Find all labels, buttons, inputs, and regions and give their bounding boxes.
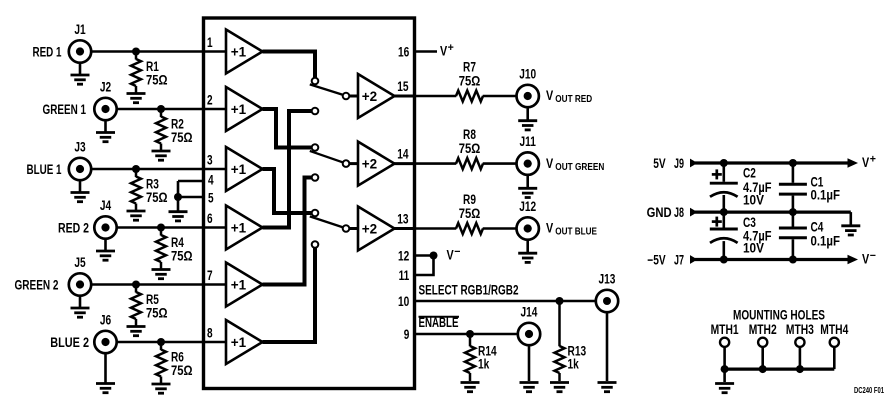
connector J11 — [517, 152, 539, 174]
wire buffer2 out to mux2 upper — [263, 109, 312, 148]
svg-text:C2: C2 — [743, 165, 756, 180]
ground R14 — [461, 383, 480, 392]
C2 polarity + — [712, 173, 722, 176]
svg-text:C4: C4 — [811, 220, 824, 235]
svg-text:V: V — [440, 43, 447, 58]
junction R14 node — [466, 330, 474, 338]
ground R5 — [127, 327, 146, 336]
svg-text:15: 15 — [397, 79, 409, 94]
svg-text:OUT BLUE: OUT BLUE — [555, 227, 597, 238]
op-amp buffer U1c +1 — [226, 147, 263, 191]
resistor R13 1k — [558, 301, 561, 346]
junction V- — [430, 252, 438, 260]
svg-text:8: 8 — [207, 326, 213, 341]
resistor R8 75Ω — [456, 158, 483, 169]
wire R8 to J11 — [483, 162, 517, 165]
svg-text:SELECT RGB1/RGB2: SELECT RGB1/RGB2 — [419, 283, 519, 298]
svg-text:MTH1: MTH1 — [711, 322, 739, 337]
wire mux2 pole to amp — [350, 162, 359, 165]
mounting hole MTH4 — [830, 338, 839, 347]
wire pin to buffer U1a — [204, 50, 227, 53]
svg-text:RED 2: RED 2 — [58, 220, 89, 235]
svg-text:MTH3: MTH3 — [786, 322, 814, 337]
svg-text:+: + — [870, 154, 876, 166]
junction R3 node — [132, 165, 140, 173]
wire pin to R7 — [415, 95, 457, 98]
svg-text:4: 4 — [208, 173, 214, 188]
svg-text:J5: J5 — [74, 255, 86, 270]
junction R13 node — [556, 297, 564, 305]
ground J10 — [518, 121, 537, 130]
ground J12 — [518, 253, 537, 262]
ground rail — [841, 226, 860, 235]
svg-text:J6: J6 — [100, 313, 112, 328]
wire -5V rail — [695, 258, 849, 261]
svg-text:3: 3 — [207, 153, 213, 168]
wire pin10 SELECT — [415, 300, 597, 303]
op-amp U2b +2 — [358, 142, 395, 186]
switch mux2 lower contact — [312, 174, 319, 181]
wire pin to buffer U1f — [204, 341, 227, 344]
svg-text:J8: J8 — [674, 205, 684, 220]
svg-text:+1: +1 — [231, 102, 247, 117]
wire BLUE 2 to pin — [117, 341, 204, 344]
ground J14 — [520, 383, 539, 392]
ground R3 — [127, 211, 146, 220]
capacitor C1 0.1uF — [792, 163, 795, 183]
svg-text:10: 10 — [398, 294, 409, 309]
svg-text:1k: 1k — [478, 357, 490, 372]
wire J13 ground stem — [606, 312, 609, 381]
ground R1 — [127, 94, 146, 103]
wire pin9 ENABLE — [415, 333, 517, 336]
wire mux3 pole to amp — [350, 227, 359, 230]
wire buffer3 out to mux3 upper — [263, 169, 312, 213]
mounting hole MTH1 — [720, 338, 729, 347]
ground J11 — [518, 188, 537, 197]
wire U2b out to pin — [395, 162, 415, 165]
switch mux2 upper contact — [312, 144, 319, 151]
ground J3 — [79, 180, 82, 192]
op-amp U2a +2 — [358, 74, 395, 118]
C3 polarity + — [712, 220, 722, 223]
svg-text:J4: J4 — [100, 198, 112, 213]
svg-text:75Ω: 75Ω — [171, 363, 193, 378]
wire MTH3 stem — [799, 347, 802, 369]
svg-text:BLUE 2: BLUE 2 — [50, 335, 89, 350]
wire U2a out to pin — [395, 95, 415, 98]
ground J1 — [79, 63, 82, 75]
svg-text:−: − — [454, 246, 460, 258]
svg-text:75Ω: 75Ω — [146, 73, 168, 88]
connector J14 — [518, 323, 540, 345]
ground R2 — [152, 151, 171, 160]
wire buffer6 out to mux3 lower — [263, 248, 316, 342]
junction C1 bottom — [789, 208, 797, 216]
wire pins 4-5 tie — [177, 181, 180, 197]
ground J10 stem — [526, 107, 529, 120]
node J9 input marker — [690, 159, 698, 168]
ground J12 stem — [526, 240, 529, 253]
svg-text:+2: +2 — [362, 157, 377, 172]
overline ENABLE — [419, 316, 460, 318]
resistor R14 1k — [469, 334, 472, 346]
svg-text:75Ω: 75Ω — [146, 190, 168, 205]
pin16 V+ stub — [415, 50, 438, 53]
junction R4 node — [157, 224, 165, 232]
junction pins4-5 — [174, 193, 182, 201]
svg-text:0.1µF: 0.1µF — [811, 187, 841, 202]
connector J3 (BLUE 1) — [69, 158, 91, 180]
ground R4 — [152, 270, 171, 279]
svg-text:75Ω: 75Ω — [171, 130, 193, 145]
wire RED 1 to pin — [91, 50, 203, 53]
op-amp buffer U1e +1 — [226, 263, 263, 307]
switch mux2 blade — [310, 151, 343, 162]
junction MTH1 — [721, 365, 729, 373]
resistor R6 75Ω — [160, 342, 163, 350]
svg-text:J10: J10 — [519, 67, 536, 82]
junction R1 node — [132, 48, 140, 56]
svg-text:DC240 F01: DC240 F01 — [854, 386, 884, 395]
node J8 input marker — [690, 208, 698, 217]
capacitor C3 4.7uF — [722, 212, 725, 228]
svg-text:OUT RED: OUT RED — [555, 94, 592, 105]
svg-text:10V: 10V — [743, 240, 764, 255]
svg-text:V: V — [546, 221, 553, 236]
op-amp U2c +2 — [358, 207, 395, 251]
wire pin to buffer U1c — [204, 168, 227, 171]
svg-text:75Ω: 75Ω — [459, 141, 481, 156]
wire pin4 stub — [178, 180, 204, 183]
svg-text:GND: GND — [647, 205, 672, 220]
svg-text:OUT GREEN: OUT GREEN — [555, 162, 604, 173]
switch mux3 upper contact — [312, 210, 319, 217]
svg-text:10V: 10V — [743, 192, 764, 207]
svg-text:0.1µF: 0.1µF — [811, 233, 841, 248]
mounting hole MTH3 — [795, 338, 804, 347]
svg-text:+1: +1 — [231, 162, 247, 177]
switch mux2 pole — [343, 160, 350, 167]
capacitor C4 0.1uF — [792, 212, 795, 226]
svg-text:1: 1 — [207, 35, 213, 50]
wire GND drop — [849, 212, 852, 224]
resistor R7 75Ω — [456, 91, 483, 102]
wire pin to buffer U1b — [204, 108, 227, 111]
resistor R1 75Ω — [135, 52, 138, 60]
wire BLUE 1 to pin — [91, 168, 203, 171]
ground pins 4-5 — [169, 212, 188, 221]
connector J4 (RED 2) — [94, 216, 116, 238]
svg-text:GREEN 1: GREEN 1 — [43, 102, 87, 117]
junction R6 node — [157, 338, 165, 346]
op-amp buffer U1b +1 — [226, 87, 263, 131]
svg-text:V: V — [862, 155, 869, 170]
svg-text:7: 7 — [207, 268, 213, 283]
svg-text:J11: J11 — [520, 134, 537, 149]
svg-text:V: V — [546, 88, 553, 103]
wire U2c out to pin — [395, 227, 415, 230]
wire buffer5 out to mux2 lower — [263, 178, 312, 285]
svg-text:V: V — [447, 247, 454, 262]
resistor R5 75Ω — [135, 285, 138, 293]
svg-text:MTH2: MTH2 — [749, 322, 777, 337]
switch mux1 upper contact — [312, 78, 319, 85]
svg-text:J7: J7 — [674, 252, 684, 267]
switch mux1 lower contact — [312, 108, 319, 115]
svg-text:RED 1: RED 1 — [33, 44, 62, 59]
pin12 V- wire — [415, 254, 434, 257]
capacitor C2 4.7uF — [722, 163, 725, 182]
switch mux1 blade — [310, 84, 343, 94]
wire pin to buffer U1e — [204, 283, 227, 286]
wire mounting ground stem — [723, 369, 726, 382]
svg-text:MTH4: MTH4 — [820, 322, 848, 337]
svg-text:GREEN 2: GREEN 2 — [15, 277, 59, 292]
wire buffer4 out to mux1 lower — [263, 111, 312, 228]
svg-text:J9: J9 — [674, 156, 684, 171]
op-amp buffer U1d +1 — [226, 206, 263, 250]
ground J4 — [104, 239, 107, 251]
svg-text:5: 5 — [208, 191, 214, 206]
svg-text:11: 11 — [399, 268, 410, 283]
wire GREEN 1 to pin — [117, 108, 204, 111]
pin11 L wire — [415, 256, 434, 276]
svg-text:R9: R9 — [463, 192, 476, 207]
svg-text:12: 12 — [398, 248, 409, 263]
junction C2 top — [720, 159, 728, 167]
junction C2 bottom — [720, 208, 728, 216]
svg-text:V: V — [862, 251, 869, 266]
svg-text:16: 16 — [398, 44, 410, 59]
wire GREEN 2 to pin — [91, 283, 203, 286]
resistor R2 75Ω — [160, 109, 163, 117]
svg-text:75Ω: 75Ω — [171, 249, 193, 264]
junction C1 top — [789, 159, 797, 167]
junction C3 bottom — [720, 256, 728, 264]
ground R6 — [152, 384, 171, 393]
svg-text:1k: 1k — [568, 357, 580, 372]
wire GND rail — [695, 211, 851, 214]
svg-text:+: + — [448, 42, 454, 54]
wire pin to R8 — [415, 162, 457, 165]
connector J1 (RED 1) — [69, 40, 91, 62]
op-amp buffer U1f +1 — [226, 320, 263, 364]
switch mux3 lower contact — [312, 241, 319, 248]
node V- arrow — [848, 255, 859, 265]
junction MTH3 — [796, 365, 804, 373]
switch mux3 pole — [343, 225, 350, 232]
junction MTH2 — [759, 365, 767, 373]
svg-text:9: 9 — [404, 327, 410, 342]
connector J2 (GREEN 1) — [94, 98, 116, 120]
svg-text:J3: J3 — [74, 140, 86, 155]
wire R7 to J10 — [483, 95, 517, 98]
svg-text:+1: +1 — [231, 335, 247, 350]
wire pin to R9 — [415, 227, 457, 230]
svg-text:BLUE 1: BLUE 1 — [27, 162, 62, 177]
svg-text:−5V: −5V — [647, 252, 665, 267]
wire pin to buffer U1d — [204, 226, 227, 229]
ground mounting — [715, 384, 734, 393]
svg-text:75Ω: 75Ω — [459, 74, 481, 89]
resistor R3 75Ω — [135, 169, 138, 177]
svg-text:+1: +1 — [231, 278, 247, 293]
svg-text:75Ω: 75Ω — [146, 306, 168, 321]
svg-text:J14: J14 — [521, 305, 538, 320]
svg-text:R7: R7 — [463, 60, 476, 75]
ground J13 — [598, 383, 617, 392]
svg-text:J1: J1 — [74, 22, 86, 37]
connector J12 — [517, 217, 539, 239]
resistor R9 75Ω — [456, 223, 483, 234]
svg-text:−: − — [870, 250, 876, 262]
wire R9 to J12 — [483, 227, 517, 230]
svg-text:+2: +2 — [362, 89, 377, 104]
ground J5 — [79, 296, 82, 308]
svg-text:+2: +2 — [362, 222, 377, 237]
wire J14 ground stem — [528, 345, 531, 381]
svg-text:14: 14 — [397, 147, 409, 162]
junction R2 node — [157, 105, 165, 113]
wire buffer1 out to mux1 upper — [263, 52, 316, 78]
ground R13 — [550, 383, 569, 392]
svg-text:MOUNTING HOLES: MOUNTING HOLES — [733, 308, 825, 323]
wire MTH4 stem — [833, 347, 836, 369]
node J7 input marker — [690, 255, 698, 264]
wire 5V rail — [695, 161, 849, 164]
ground J2 — [104, 120, 107, 132]
svg-text:J12: J12 — [519, 199, 536, 214]
wire pin5 stub — [178, 196, 204, 199]
svg-text:6: 6 — [207, 211, 213, 226]
svg-text:R8: R8 — [463, 127, 476, 142]
node V+ arrow — [848, 158, 859, 168]
ground J6 — [104, 353, 107, 383]
connector J10 — [517, 85, 539, 107]
svg-text:J13: J13 — [599, 272, 616, 287]
resistor R4 75Ω — [160, 228, 163, 236]
connector J6 (BLUE 2) — [94, 331, 116, 353]
wire MTH2 stem — [761, 347, 764, 369]
svg-text:+1: +1 — [231, 45, 247, 60]
junction R5 node — [132, 281, 140, 289]
svg-text:V: V — [546, 156, 553, 171]
svg-text:J2: J2 — [100, 80, 111, 95]
switch mux1 pole — [343, 93, 350, 100]
junction C4 bottom — [789, 256, 797, 264]
svg-text:13: 13 — [397, 212, 409, 227]
mounting hole MTH2 — [758, 338, 767, 347]
svg-text:2: 2 — [207, 93, 213, 108]
ground J11 stem — [526, 175, 529, 188]
op-amp buffer U1a +1 — [226, 30, 263, 74]
svg-text:+1: +1 — [231, 221, 247, 236]
wire mounting bus — [725, 368, 835, 371]
connector J5 (GREEN 2) — [69, 273, 91, 295]
switch mux3 blade — [310, 216, 343, 227]
wire mux1 pole to amp — [350, 95, 359, 98]
wire RED 2 to pin — [117, 226, 204, 229]
connector J13 — [596, 290, 618, 312]
wire MTH1 stem — [723, 347, 726, 369]
svg-text:5V: 5V — [653, 156, 665, 171]
op-amp IC box (LT1675) — [204, 18, 415, 389]
svg-text:75Ω: 75Ω — [459, 206, 481, 221]
